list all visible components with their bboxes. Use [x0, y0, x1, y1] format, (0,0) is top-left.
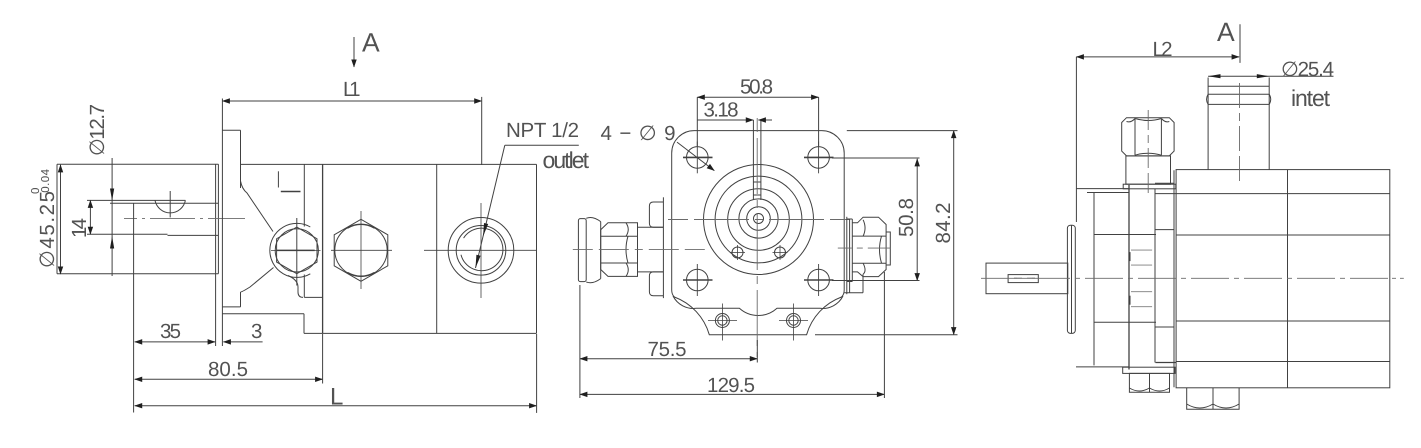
- section marker A (left view): [353, 37, 355, 67]
- dimension 4-phi9 leader: [677, 142, 714, 171]
- svg-text:84.2: 84.2: [932, 203, 955, 244]
- svg-text:A: A: [1217, 17, 1235, 47]
- dimension 50.8 top: [697, 97, 818, 146]
- main body: [1155, 170, 1390, 388]
- svg-text:80.5: 80.5: [208, 358, 248, 381]
- svg-text:L1: L1: [343, 78, 361, 101]
- hex plug 1: [271, 218, 321, 286]
- svg-text:75.5: 75.5: [648, 338, 687, 361]
- dimension phi12.7: [110, 158, 114, 276]
- shaft: [87, 200, 218, 235]
- right view horizontal centerline: [981, 277, 1404, 279]
- svg-text:-0.04: -0.04: [40, 168, 52, 197]
- bolt holes: [687, 147, 830, 291]
- middle view port centerline: [573, 248, 891, 250]
- svg-text:outlet: outlet: [543, 147, 590, 173]
- bottom cover: [708, 304, 808, 341]
- body section lines: [323, 164, 437, 333]
- svg-text:intet: intet: [1291, 85, 1331, 111]
- dimension 3: [223, 341, 262, 343]
- dimension 84.2: [815, 131, 958, 335]
- left port boss tabs: [649, 197, 663, 298]
- svg-text:129.5: 129.5: [707, 374, 755, 397]
- dimension 3.18: [697, 119, 772, 121]
- lower cover top contour: [673, 296, 843, 316]
- svg-text:L2: L2: [1153, 38, 1173, 61]
- keyway arc: [155, 191, 185, 217]
- dimension L2: [1076, 24, 1240, 222]
- svg-text:NPT 1/2: NPT 1/2: [506, 119, 579, 142]
- inlet tube: [1207, 78, 1271, 170]
- perpendicularity symbol: [278, 171, 300, 191]
- top hex fitting: [1122, 118, 1176, 189]
- svg-text:∅12.7: ∅12.7: [86, 104, 109, 156]
- flange disc: [1067, 225, 1075, 333]
- dimension 35: [134, 203, 216, 412]
- svg-text:3.18: 3.18: [704, 99, 739, 122]
- dimension L1: [222, 97, 481, 165]
- housing dowel marks: [1131, 250, 1152, 307]
- svg-text:A: A: [362, 28, 380, 58]
- bottom hex fitting 1: [1123, 367, 1175, 392]
- svg-text:∅25.4: ∅25.4: [1281, 58, 1334, 81]
- dimension phi25.4: [1208, 74, 1333, 78]
- bearing cylinder body: [57, 164, 218, 346]
- dimension 80.5: [135, 334, 323, 384]
- NPT outlet port: [424, 203, 537, 298]
- left port fitting: pipe cap: [578, 217, 600, 282]
- shaft: [986, 263, 1068, 294]
- bolt hole crosshairs: [683, 142, 834, 297]
- NPT leader line: [476, 145, 579, 268]
- vertical centerlines right view: [1148, 83, 1239, 193]
- dimension L: [135, 334, 537, 413]
- dimension 129.5: [580, 272, 885, 398]
- left port fitting: hex nut: [601, 223, 638, 277]
- flange outline: [672, 131, 845, 335]
- svg-text:50.8: 50.8: [740, 76, 773, 99]
- shaft centerline: [124, 217, 245, 219]
- svg-text:35: 35: [160, 320, 181, 343]
- key slot: [753, 120, 761, 200]
- dimension 75.5: [580, 285, 757, 398]
- svg-text:4−∅9: 4−∅9: [601, 122, 676, 145]
- gear housing: [1129, 170, 1176, 387]
- svg-text:14: 14: [68, 218, 91, 238]
- flange plate: [222, 99, 240, 347]
- bottom hex fitting 2: [1187, 388, 1239, 409]
- hex plug 2: [331, 211, 392, 289]
- dimension phi45.25: [60, 165, 62, 274]
- casting contour around hex boss: [241, 181, 311, 297]
- center crosshair: [668, 118, 850, 357]
- dimension 50.8 right: [832, 158, 920, 281]
- svg-text:∅45.25: ∅45.25: [36, 191, 59, 268]
- small port holes: [730, 245, 788, 260]
- pump body outline: [222, 164, 536, 333]
- svg-text:50.8: 50.8: [895, 198, 918, 237]
- left port fitting: shank: [638, 223, 664, 277]
- svg-text:3: 3: [251, 320, 262, 343]
- front cover block: [1076, 189, 1156, 367]
- dimension 14: [89, 200, 91, 234]
- svg-text:L: L: [330, 384, 343, 411]
- center boss circles: [704, 165, 814, 275]
- right port fitting: [844, 217, 890, 294]
